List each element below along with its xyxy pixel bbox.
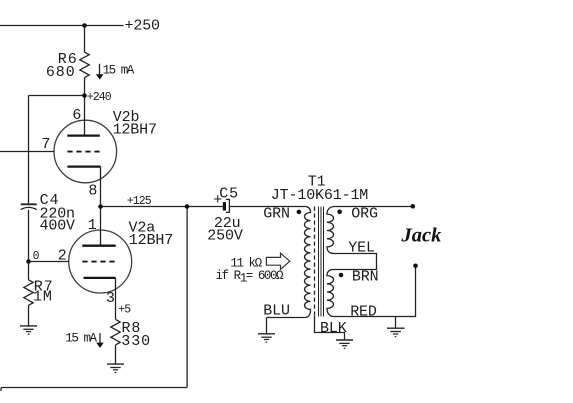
svg-text:GRN: GRN xyxy=(263,206,290,223)
svg-text:BLK: BLK xyxy=(320,320,347,337)
svg-text:400V: 400V xyxy=(40,218,76,235)
ground R8 xyxy=(107,364,124,372)
wire feedback vertical xyxy=(186,207,188,388)
svg-text:0: 0 xyxy=(33,250,40,263)
wire +125 rail xyxy=(101,206,223,208)
core line 2 xyxy=(320,207,322,317)
svg-text:680: 680 xyxy=(46,64,76,81)
core line 3 xyxy=(323,207,325,317)
svg-text:+240: +240 xyxy=(87,91,112,104)
svg-text:+5: +5 xyxy=(118,303,131,316)
jack tip terminal xyxy=(411,204,416,209)
arrow head R8 current xyxy=(96,343,104,348)
junction +125 xyxy=(98,204,103,209)
wire R8 to ground xyxy=(115,345,117,364)
transformer shield dashed xyxy=(314,207,316,317)
svg-text:250V: 250V xyxy=(207,228,243,245)
wire BLU to ground xyxy=(266,318,268,334)
svg-text:YEL: YEL xyxy=(348,240,375,257)
wire feedback end tick xyxy=(0,388,2,392)
GRN phase dot xyxy=(297,210,302,215)
resistor R7 xyxy=(24,280,33,306)
V2b grid wire pin 7 xyxy=(0,151,54,153)
resistor R8 xyxy=(111,319,120,345)
BRN phase dot xyxy=(339,273,344,278)
V2b cathode xyxy=(67,165,100,167)
wire +250 rail xyxy=(0,25,124,27)
svg-text:1: 1 xyxy=(88,217,97,234)
wire node 0 to R7 xyxy=(28,262,30,280)
V2b cathode lead pin 8 xyxy=(100,167,102,207)
svg-text:+: + xyxy=(213,192,222,209)
wire RED ground stub xyxy=(395,317,397,329)
capacitor C5 plus plate xyxy=(223,202,226,210)
ground jack xyxy=(387,328,405,336)
wire ORG to jack xyxy=(334,206,413,208)
junction feedback xyxy=(185,204,190,209)
wire left vertical to C4 xyxy=(28,96,30,204)
resistor R6 xyxy=(80,52,89,78)
wire C4 to node 0 xyxy=(28,210,30,262)
core line 1 xyxy=(318,207,320,317)
wire C5 to T1 xyxy=(230,206,306,208)
arrow head R6 current xyxy=(96,74,104,79)
ground R7 xyxy=(20,326,37,334)
svg-text:15 mA: 15 mA xyxy=(65,332,97,346)
ground BLU xyxy=(258,334,275,342)
current arrow line R6 xyxy=(99,64,101,75)
capacitor C4 xyxy=(21,203,37,205)
transformer secondary winding and YEL jumper and RED lead xyxy=(327,207,416,317)
svg-text:BLU: BLU xyxy=(263,303,290,320)
V2a plate lead pin 1 xyxy=(100,207,102,245)
svg-text:Jack: Jack xyxy=(401,225,443,247)
junction +250 xyxy=(82,23,87,28)
wire R7 to ground xyxy=(28,305,30,326)
jack sleeve terminal xyxy=(413,264,418,269)
svg-text:JT-10K61-1M: JT-10K61-1M xyxy=(271,187,369,204)
svg-text:RED: RED xyxy=(350,303,377,320)
svg-text:+125: +125 xyxy=(127,195,152,208)
svg-text:6: 6 xyxy=(72,107,81,124)
triode V2a envelope xyxy=(69,230,132,293)
svg-text:8: 8 xyxy=(88,183,97,200)
svg-text:7: 7 xyxy=(41,136,50,153)
V2a grid wire pin 2 xyxy=(29,261,69,263)
svg-text:12BH7: 12BH7 xyxy=(113,121,157,138)
V2b plate xyxy=(67,134,100,136)
wire feedback bottom xyxy=(1,387,187,389)
impedance block arrow xyxy=(266,253,289,269)
wire R6 top xyxy=(84,26,86,53)
V2a cathode xyxy=(84,277,116,279)
ORG phase dot xyxy=(337,210,342,215)
svg-text:12BH7: 12BH7 xyxy=(129,232,173,249)
V2a plate xyxy=(82,245,115,247)
svg-text:if R1= 600Ω: if R1= 600Ω xyxy=(216,269,285,286)
V2a cathode lead pin 3 xyxy=(115,278,117,320)
transformer T1 primary winding xyxy=(267,207,311,318)
wire BLK shield to ground xyxy=(315,316,345,340)
wire R6 bottom xyxy=(84,78,86,96)
svg-text:BRN: BRN xyxy=(352,269,379,286)
current arrow line R8 xyxy=(99,333,101,343)
junction node 0 xyxy=(26,259,31,264)
capacitor C5 bracket plate xyxy=(226,199,230,212)
V2b plate lead pin 6 xyxy=(84,96,86,135)
svg-text:15 mA: 15 mA xyxy=(103,63,135,77)
wire +240 horizontal xyxy=(29,95,85,97)
svg-text:ORG: ORG xyxy=(351,206,378,223)
svg-text:+250: +250 xyxy=(125,18,161,35)
svg-text:330: 330 xyxy=(121,333,151,350)
svg-text:C5: C5 xyxy=(219,186,239,203)
V2b grid xyxy=(67,151,100,153)
svg-text:3: 3 xyxy=(106,290,115,307)
V2a grid xyxy=(82,261,115,263)
svg-text:1M: 1M xyxy=(33,289,53,306)
junction +240 xyxy=(82,93,87,98)
triode V2b envelope xyxy=(54,120,117,183)
svg-text:2: 2 xyxy=(58,247,67,264)
ground BLK xyxy=(336,340,353,348)
